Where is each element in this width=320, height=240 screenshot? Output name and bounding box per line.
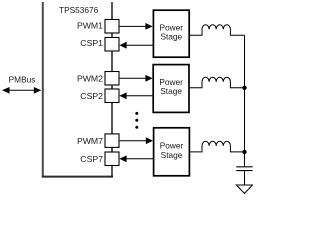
svg-text:PWM2: PWM2 <box>77 73 103 83</box>
controller U1 bottom edge <box>42 176 113 178</box>
inductor L3 <box>190 141 245 152</box>
pin PWM1 <box>105 20 119 34</box>
capacitor COUT <box>236 167 252 185</box>
svg-text:PMBus: PMBus <box>9 75 36 85</box>
wire Power Stage 1 to CSP1 (arrow) <box>119 42 153 49</box>
ground <box>236 185 252 193</box>
inductor L1 <box>189 25 244 36</box>
PMBus bidirectional wire/arrow <box>2 87 41 94</box>
svg-text:TPS53676: TPS53676 <box>59 5 99 15</box>
controller U1 TPS53676 left edge <box>42 2 44 178</box>
power stage U4 <box>154 128 190 176</box>
power stage U3 <box>153 65 189 113</box>
pin CSP2 <box>105 89 119 103</box>
svg-text:CSP1: CSP1 <box>80 38 103 48</box>
pin CSP7 <box>105 152 119 166</box>
junction node phase 2 <box>242 86 246 90</box>
inductor L2 <box>189 77 244 88</box>
pin PWM2 <box>105 72 119 86</box>
wire PWM1 to Power Stage 1 (arrow) <box>120 23 153 30</box>
output rail wire (VOUT) <box>244 35 246 166</box>
wire PWM2 to Power Stage 2 (arrow) <box>120 75 153 82</box>
wire Power Stage 2 to CSP2 (arrow) <box>119 92 153 99</box>
svg-text:Stage: Stage <box>160 32 182 42</box>
power stage U2 <box>153 10 189 57</box>
svg-text:PWM7: PWM7 <box>77 136 103 146</box>
junction node phase 7 <box>242 150 246 154</box>
pin bus wire (vertical) <box>111 2 113 177</box>
svg-text:CSP2: CSP2 <box>80 91 103 101</box>
ellipsis (more phases) <box>135 112 138 129</box>
pin PWM7 <box>105 134 119 148</box>
svg-text:CSP7: CSP7 <box>80 154 103 164</box>
pin CSP1 <box>105 38 119 52</box>
wire PWM7 to Power Stage 3 (arrow) <box>120 137 153 144</box>
wire Power Stage 3 to CSP7 (arrow) <box>119 155 153 162</box>
svg-text:PWM1: PWM1 <box>77 21 103 31</box>
svg-text:Stage: Stage <box>160 86 182 96</box>
svg-text:Stage: Stage <box>161 150 183 160</box>
